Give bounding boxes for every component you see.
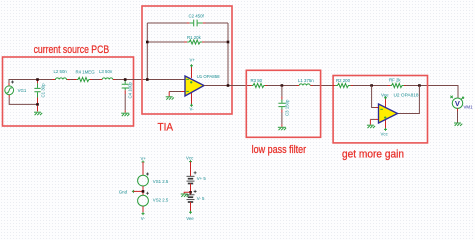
svg-text:current source PCB: current source PCB [34,44,110,56]
box current source PCB [3,57,134,126]
wire U1 non-inverting input to ground [181,91,185,93]
wire VS1 to junction [142,186,144,195]
svg-text:C1 30p: C1 30p [41,83,46,98]
capacitor C3 [278,86,285,127]
wire feedback R1 row [147,41,228,43]
wire VG1 bottom to C1 bottom [9,98,37,105]
box get more gain [333,76,427,143]
source VS1 [138,173,149,187]
junction C1 top [36,78,39,81]
wire junction to ground [184,192,190,193]
wire Gnd to junction [133,190,143,192]
resistor R1 [184,40,204,44]
op-amp U1 OPA858 [185,64,204,107]
svg-text:U2 OPA818: U2 OPA818 [394,93,420,98]
svg-text:TIA: TIA [158,122,174,134]
resistor R4 [74,77,93,81]
resistor R2 [333,83,353,87]
junction feedback right at R1 row [227,41,230,44]
wire battery to Vee [190,202,192,212]
svg-text:get more gain: get more gain [342,148,404,160]
svg-text:C4 100p: C4 100p [128,81,133,98]
svg-text:L1 375n: L1 375n [298,78,314,83]
svg-text:C3 150p: C3 150p [285,99,290,116]
box low pass filter [246,70,320,137]
svg-text:VS2 2.5: VS2 2.5 [153,198,169,203]
wire feedback right vertical [227,23,229,86]
wire feedback left vertical [146,23,148,80]
svg-text:R4 1MEG: R4 1MEG [76,69,96,74]
capacitor C1 [34,80,40,103]
source VG1 [5,81,14,98]
junction VS1-VS2 [142,190,145,193]
ground battery mid [181,194,189,197]
junction TIA input node [146,78,149,81]
op-amp U2 OPA818 [379,96,398,131]
svg-text:R1 20k: R1 20k [187,35,202,40]
junction C1 bottom [36,103,39,106]
capacitor C2 [187,20,206,27]
svg-text:V+: V+ [190,58,196,63]
wire U2 non-inverting input to ground [375,118,379,120]
wire input net top (VG1 to TIA inverting input) [9,80,185,86]
junction U2 inverting tap [370,84,373,87]
svg-text:VM1: VM1 [464,105,474,110]
pin tick V+ [142,161,145,164]
pin tick V- [142,212,145,215]
wire Vcc to battery V+5 [190,162,192,176]
svg-text:V- 5: V- 5 [197,196,205,201]
source VS2 [138,192,149,206]
svg-text:Vee: Vee [186,216,194,221]
svg-text:C2 450f: C2 450f [189,14,205,19]
wire TIA output net to low pass filter [204,86,458,99]
svg-text:V: V [455,99,460,108]
svg-text:Vcc: Vcc [186,156,194,161]
svg-text:V+: V+ [141,156,147,161]
ground below C4 [121,113,129,116]
box TIA [142,6,232,114]
svg-text:Gnd: Gnd [119,190,128,195]
svg-text:R2 200: R2 200 [336,78,351,83]
inductor L3 [100,78,116,80]
svg-text:V+ 5: V+ 5 [197,176,207,181]
svg-text:R3 50: R3 50 [251,78,263,83]
resistor RF [388,83,406,87]
svg-text:U1 OPA858: U1 OPA858 [197,74,221,79]
wire feedback top branch C2 row [147,22,228,24]
ground below C1 [37,106,39,112]
junction C3 tap [281,84,284,87]
svg-text:VS1 2.5: VS1 2.5 [153,179,169,184]
svg-text:L3 50n: L3 50n [99,69,113,74]
svg-text:RF 2k: RF 2k [389,78,401,83]
svg-text:V-: V- [190,106,195,111]
ground at U2 non-inverting input [367,125,375,128]
battery V- 5 [187,190,197,202]
voltmeter VM1 [450,96,463,123]
ground at U1 non-inverting input [166,97,174,100]
svg-text:low pass filter: low pass filter [252,144,307,156]
svg-text:Vcc: Vcc [381,131,389,136]
wire V+ to VS1 [142,162,144,175]
wire U2 inverting input branch [372,86,376,108]
svg-text:V-: V- [141,216,146,221]
inductor L1 [297,84,313,86]
wire U2 output to feedback tap [398,86,420,114]
battery V+ 5 [187,171,197,183]
pin tick Vcc [189,160,192,163]
ground below C3 [278,127,286,130]
svg-text:Vee: Vee [381,93,389,98]
junction C4 top [124,78,127,81]
svg-text:VG1: VG1 [18,88,27,93]
junction feedback left at R1 row [146,41,149,44]
ground below VM1 [454,123,462,126]
resistor R3 [249,83,267,87]
inductor L2 [52,78,69,80]
capacitor C4 [122,80,129,112]
junction TIA output feedback tap [227,84,230,87]
wire battery to junction [190,184,192,195]
junction battery mid [189,191,192,194]
junction U2 output feedback tap [418,84,421,87]
wire VS2 to V- [142,206,144,213]
svg-text:L2 50n: L2 50n [54,69,68,74]
pin tick Gnd [132,190,135,193]
pin tick Vee [189,211,192,214]
